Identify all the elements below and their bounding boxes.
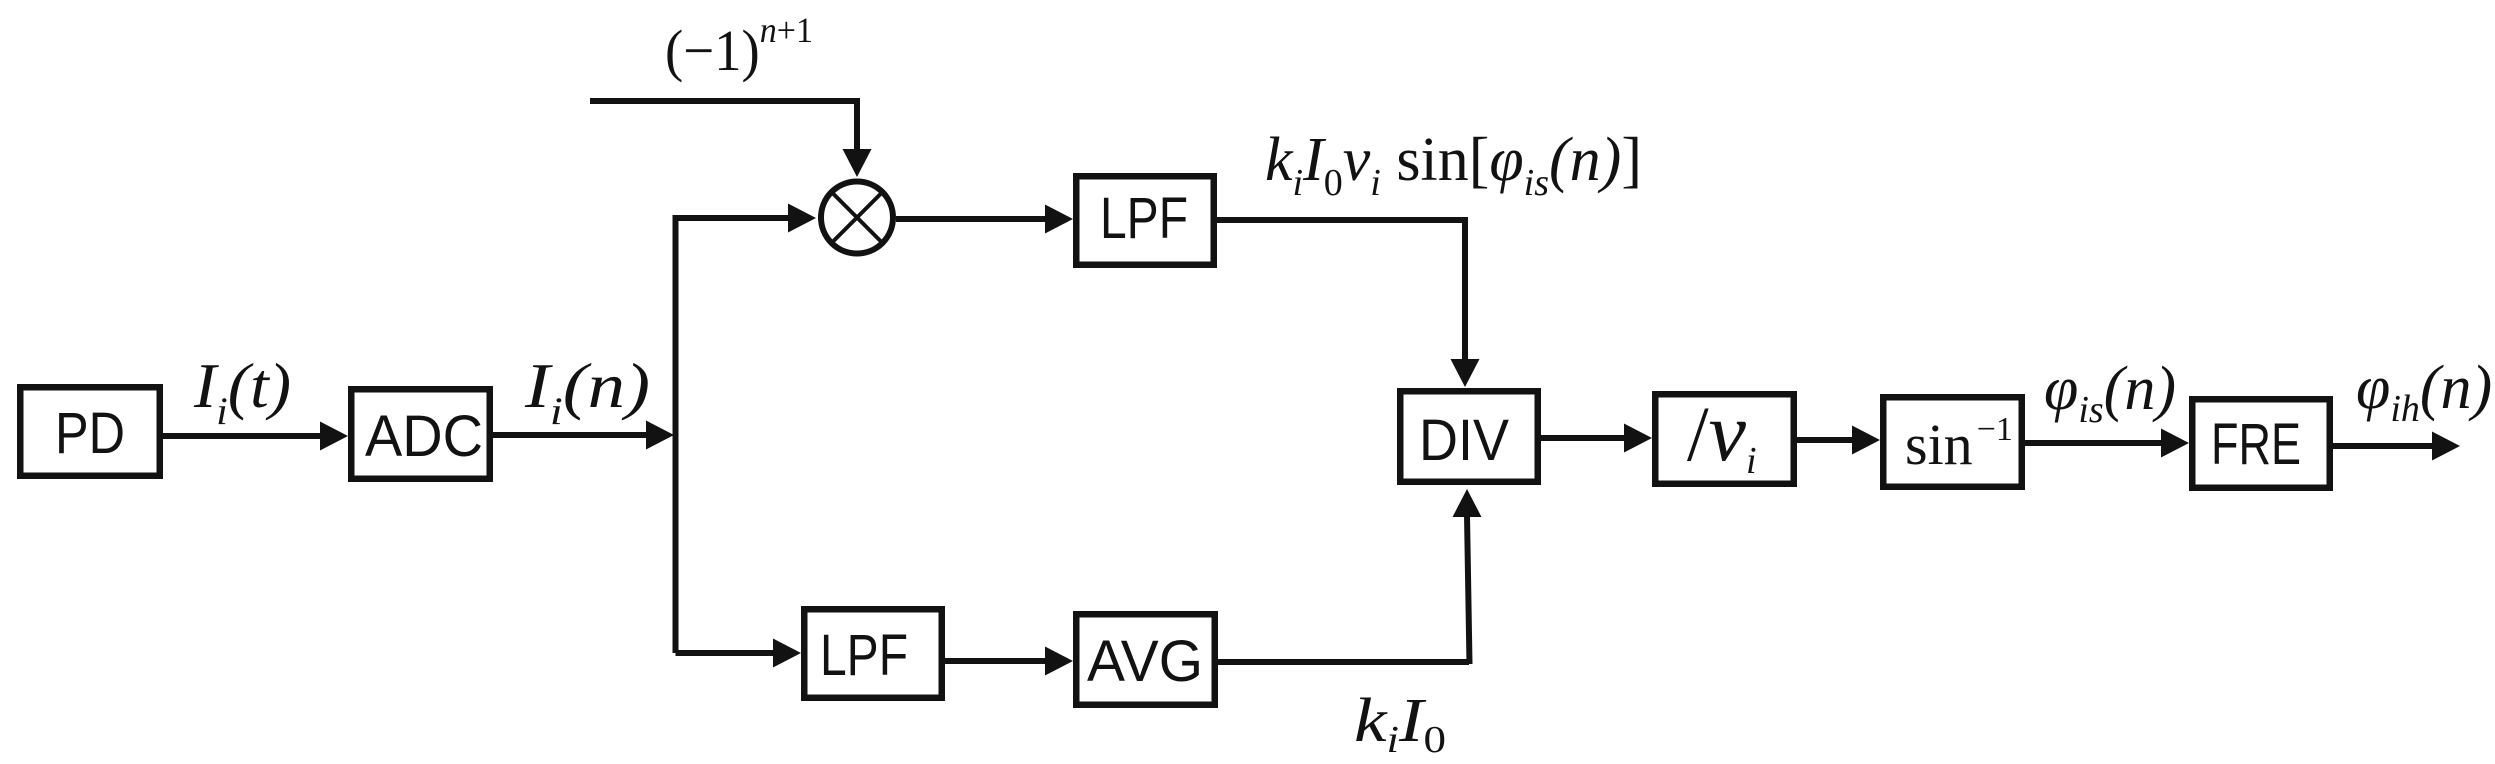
svg-text:ADC: ADC: [365, 404, 483, 469]
wire DIV to nu block: [1541, 435, 1626, 441]
block ADC: [351, 389, 490, 479]
block LPF lower: [804, 609, 942, 698]
arrowhead into upper LPF: [1045, 205, 1073, 234]
arrowhead into FRE: [2161, 429, 2189, 458]
arrowhead output: [2432, 432, 2460, 461]
svg-text:LPF: LPF: [820, 623, 908, 688]
wire AVG to corner: [1218, 659, 1469, 665]
wire corner up to DIV: [1467, 515, 1470, 664]
arrowhead into lower LPF: [773, 639, 801, 668]
block sin-1: [1883, 397, 2022, 487]
wire (-1) horizontal feed: [590, 98, 860, 104]
arrowhead into multiplier left: [788, 204, 816, 233]
svg-text:φis(n): φis(n): [2044, 355, 2176, 431]
svg-text:Ii(t): Ii(t): [193, 351, 291, 433]
block AVG: [1076, 614, 1215, 705]
arrowhead into ADC: [320, 422, 348, 451]
svg-text:Ii(n): Ii(n): [524, 351, 650, 433]
arrowhead into sin block: [1852, 426, 1880, 455]
svg-text:FRE: FRE: [2211, 412, 2301, 477]
wire (-1) vertical feed: [854, 98, 860, 151]
wire FRE output: [2333, 443, 2434, 449]
svg-text:PD: PD: [55, 401, 125, 466]
wire branch to lower LPF: [676, 650, 776, 656]
arrowhead into branch node: [646, 421, 674, 450]
arrowhead into DIV bottom: [1453, 489, 1482, 517]
block /nu: [1655, 394, 1794, 484]
svg-text:kiI0νi sin[φis(n)]: kiI0νi sin[φis(n)]: [1265, 126, 1642, 204]
wire multiplier to LPF: [896, 216, 1047, 222]
svg-text:LPF: LPF: [1100, 186, 1188, 251]
wire PD to ADC: [163, 433, 322, 439]
wire nu block to sin block: [1797, 437, 1854, 443]
wire branch to multiplier: [673, 215, 791, 221]
arrowhead into DIV top: [1451, 359, 1480, 387]
svg-text:kiI0: kiI0: [1354, 687, 1446, 761]
svg-text:AVG: AVG: [1087, 629, 1203, 694]
svg-text:DIV: DIV: [1419, 408, 1509, 473]
svg-text:φih(n): φih(n): [2356, 354, 2492, 430]
block DIV: [1400, 391, 1538, 482]
block FRE: [2192, 399, 2330, 488]
wire branch vertical: [673, 218, 679, 653]
svg-text:(−1)n+1: (−1)n+1: [665, 10, 813, 83]
arrowhead into multiplier top: [843, 149, 872, 177]
multiplier M1 cross: [834, 194, 881, 241]
multiplier M1 circle: [821, 182, 893, 254]
block PD: [20, 387, 160, 476]
wire lower LPF to AVG: [945, 658, 1047, 664]
wire LPF to corner: [1217, 217, 1465, 223]
wire corner down to DIV: [1462, 217, 1468, 361]
block LPF upper: [1076, 176, 1214, 265]
arrowhead into AVG: [1045, 647, 1073, 676]
arrowhead into nu block: [1624, 424, 1652, 453]
wire sin block to FRE: [2025, 440, 2163, 446]
wire ADC to branch node: [493, 432, 648, 438]
